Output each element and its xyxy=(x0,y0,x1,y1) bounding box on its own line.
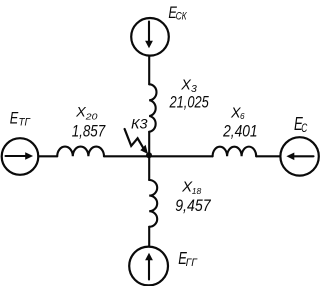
source U3 E_C circle (right) xyxy=(280,137,318,175)
label X18 xyxy=(181,179,201,196)
svg-text:21,025: 21,025 xyxy=(169,93,210,112)
inductor X6 xyxy=(213,147,257,157)
wire: inductor X3 to node K3 xyxy=(148,132,150,157)
svg-text:СК: СК xyxy=(176,11,188,23)
inductor X3 xyxy=(149,84,156,132)
svg-text:9,457: 9,457 xyxy=(175,196,211,215)
wire: inductor X6 to E_C xyxy=(256,155,280,157)
arrow of E_TG (right) xyxy=(6,152,34,160)
wire: inductor X20 to node K3 xyxy=(104,155,149,157)
label X20 xyxy=(75,103,97,121)
svg-text:20: 20 xyxy=(85,112,98,122)
source U2 E_TG circle (left) xyxy=(2,138,39,175)
label X6 xyxy=(230,105,245,121)
svg-text:6: 6 xyxy=(240,112,245,121)
wire: E_TG to inductor X20 xyxy=(38,155,57,157)
arrow of E_GG (up) xyxy=(145,253,153,280)
wire: node K3 to inductor X18 xyxy=(148,156,150,180)
label X3 xyxy=(180,78,197,96)
label E_GG xyxy=(178,248,197,269)
arrow of E_CK (down) xyxy=(145,22,153,49)
wire: node K3 to inductor X6 xyxy=(149,155,212,157)
inductor X20 xyxy=(57,147,104,157)
wire: E_CK to inductor X3 xyxy=(148,56,150,85)
svg-text:18: 18 xyxy=(192,186,202,196)
svg-text:2,401: 2,401 xyxy=(222,121,257,140)
node K3 junction dot xyxy=(146,152,152,158)
svg-text:ТГ: ТГ xyxy=(19,117,31,129)
fault arrow K3 (lightning bolt to node) xyxy=(125,129,148,154)
svg-text:ГГ: ГГ xyxy=(186,257,198,269)
label E_C xyxy=(294,114,308,135)
source U1 E_CK circle (top) xyxy=(131,18,169,56)
arrow of E_C (left) xyxy=(286,153,313,161)
svg-text:X: X xyxy=(180,78,191,94)
label E_CK xyxy=(168,4,187,23)
svg-text:1,857: 1,857 xyxy=(72,121,106,140)
svg-text:E: E xyxy=(10,108,19,127)
svg-text:С: С xyxy=(301,121,307,135)
source U4 E_GG circle (bottom) xyxy=(129,247,168,286)
svg-text:X: X xyxy=(75,103,86,119)
label E_TG xyxy=(10,108,31,128)
svg-text:К3: К3 xyxy=(131,116,148,132)
wire: inductor X18 to E_GG xyxy=(148,227,150,247)
inductor X18 xyxy=(149,180,157,227)
